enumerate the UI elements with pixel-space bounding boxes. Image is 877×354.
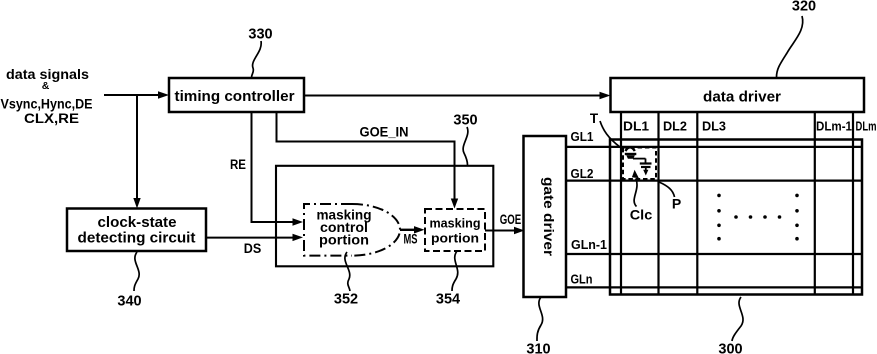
leader 330 [252,41,262,78]
leader T [600,121,620,147]
svg-text:310: 310 [526,342,550,354]
svg-text:GL1: GL1 [571,129,594,144]
svg-text:MS: MS [404,232,418,247]
svg-text:gate driver: gate driver [541,177,557,257]
wire GOE [485,227,525,234]
svg-text:GOE_IN: GOE_IN [360,125,409,140]
gate line GLn-1 [566,253,862,255]
leader P [659,182,675,197]
box 350 outer [276,166,493,266]
svg-text:GLn-1: GLn-1 [571,237,607,252]
svg-text:DS: DS [244,241,262,256]
svg-text:T: T [590,111,599,126]
leader 320 [777,16,803,77]
leader 350 [463,127,468,165]
gate line GLn [566,286,862,288]
svg-text:Clc: Clc [630,207,653,223]
transistor T symbol [625,147,646,159]
leader 354 [452,251,458,291]
ellipsis dots in panel [717,194,799,241]
data line DLm [852,112,854,295]
svg-text:340: 340 [117,294,141,310]
pixel cell dashed box [623,148,656,180]
data line DL1 [620,112,622,295]
gate line GL2 [566,180,862,182]
wire timing controller to data driver [304,92,611,99]
leader 352 [345,252,350,291]
svg-text:DL1: DL1 [623,119,649,134]
svg-text:clock-state: clock-state [98,215,177,231]
svg-text:GLn: GLn [571,271,593,286]
svg-text:GOE: GOE [500,212,522,227]
svg-text:portion: portion [431,231,479,246]
wire branch down to clock-state detecting circuit [133,95,140,209]
node input-signals [1,67,93,126]
svg-text:354: 354 [436,292,460,308]
svg-text:P: P [672,196,681,212]
svg-text:320: 320 [792,0,816,15]
data line DL3 [696,112,698,295]
gate line GL1 [566,146,862,148]
svg-text:detecting circuit: detecting circuit [78,231,196,247]
svg-text:&: & [42,80,50,92]
wire DS [206,234,303,241]
svg-text:DLm: DLm [856,119,877,134]
capacitor Clc symbol [640,159,652,176]
svg-text:CLX,RE: CLX,RE [24,111,79,126]
svg-text:GL2: GL2 [571,166,594,181]
svg-text:portion: portion [319,232,369,247]
svg-text:300: 300 [718,342,742,354]
svg-text:timing controller: timing controller [175,89,295,105]
svg-text:350: 350 [453,113,477,129]
svg-text:data driver: data driver [703,89,781,106]
svg-text:352: 352 [334,292,358,308]
svg-text:Vsync,Hync,DE: Vsync,Hync,DE [1,97,93,112]
box timing controller [169,78,304,112]
data line DLm-1 [814,112,816,295]
svg-text:DLm-1: DLm-1 [816,119,852,134]
wire input to timing controller [104,91,169,98]
svg-text:masking: masking [430,216,481,231]
panel box 300 [610,140,862,295]
svg-text:DL3: DL3 [702,119,726,134]
svg-text:DL2: DL2 [663,119,687,134]
wire RE [252,112,304,226]
data line DL2 [657,112,659,295]
svg-text:330: 330 [248,27,272,43]
box gate driver [524,136,567,297]
svg-text:RE: RE [230,157,246,172]
box data driver [611,78,865,112]
wire MS [400,226,425,233]
leader 310 [537,297,543,341]
box clock-state detecting circuit [67,209,206,252]
wire GOE_IN [277,112,459,209]
leader 300 [732,297,743,341]
masking control portion AND shape [304,204,400,256]
leader 340 [134,252,139,291]
leader Clc with arrowhead [632,170,639,207]
box masking portion [425,209,485,251]
